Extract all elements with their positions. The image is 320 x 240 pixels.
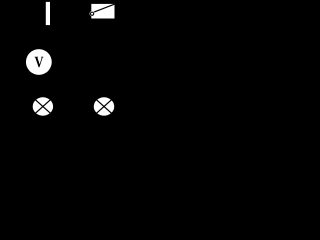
switch S1 box <box>91 4 114 19</box>
switch S1 lever arm <box>93 4 114 12</box>
lamp L2 cross stroke NW-SE <box>96 99 112 113</box>
battery cell plate (white electrode bar) <box>46 2 50 25</box>
lamp L2 cross stroke NE-SW <box>96 99 112 113</box>
lamp L2 body <box>94 97 115 116</box>
switch S1 pivot contact circle <box>91 12 94 15</box>
voltmeter V1 body <box>26 49 52 75</box>
lamp L1 cross stroke NW-SE <box>35 99 51 113</box>
voltmeter V1 label V (serif glyph path) <box>35 57 44 68</box>
switch S1 pivot white pocket <box>90 11 95 16</box>
lamp L1 body <box>33 97 53 115</box>
lamp L1 cross stroke NE-SW <box>35 99 51 113</box>
